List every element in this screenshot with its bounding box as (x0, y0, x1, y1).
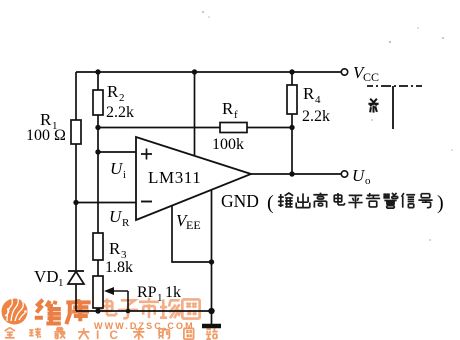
wire left vertical bottom (75, 284, 77, 311)
scan speckles (202, 11, 453, 241)
wire VCC top rail (76, 71, 341, 73)
wire divider vertical to R3 (97, 152, 99, 233)
resistor R4 (287, 85, 297, 114)
node junction rail-R4 (289, 69, 294, 74)
probe dashed line top right (367, 85, 422, 87)
node junction R4-Rf (289, 125, 294, 130)
node junction rail-R2 (95, 69, 100, 74)
watermark logo circle (2, 296, 28, 324)
wire output (251, 173, 341, 175)
wire Rf left (98, 127, 220, 129)
node junction RP bottom (95, 308, 100, 313)
svg-text:100k: 100k (212, 136, 244, 153)
probe vertical (392, 86, 394, 129)
watermark outline text 电子市场网 (102, 298, 200, 319)
pin minus sign (141, 201, 152, 203)
svg-text:I C: I C (96, 328, 118, 340)
svg-text:R: R (122, 217, 130, 229)
resistor R1 (71, 120, 81, 144)
wire RP to bottom (97, 308, 99, 311)
node junction Rf tap (95, 125, 100, 130)
terminal VCC (341, 69, 347, 75)
wire R4 bottom (291, 114, 293, 174)
wire minus input (76, 202, 136, 204)
svg-text:RP: RP (137, 284, 157, 301)
svg-text:U: U (109, 207, 123, 226)
svg-text:4: 4 (315, 94, 321, 106)
svg-text:R: R (109, 239, 121, 258)
svg-text:100 Ω: 100 Ω (26, 127, 66, 144)
wire R2 to node (97, 115, 99, 128)
resistor Rf (220, 123, 247, 133)
terminal Uo (341, 171, 347, 177)
svg-text:i: i (123, 169, 126, 181)
svg-text:R: R (303, 84, 315, 103)
wire bottom rail (76, 310, 212, 312)
diode VD1 (68, 271, 84, 284)
wire node to plus tap (97, 128, 99, 153)
wiper arrow RP1 (104, 287, 130, 313)
probe mark (368, 99, 378, 113)
svg-text:o: o (365, 175, 371, 187)
wire Rf right (247, 127, 292, 129)
svg-text:2.2k: 2.2k (106, 104, 134, 121)
pin plus sign (141, 149, 152, 160)
node junction left-minus (73, 200, 78, 205)
resistor R2 (93, 90, 103, 115)
watermark bottom line (5, 328, 90, 340)
svg-text:1: 1 (157, 292, 163, 304)
wire left vertical middle (75, 144, 77, 270)
svg-text:EE: EE (186, 218, 201, 232)
svg-text:(: ( (267, 192, 274, 214)
svg-text:U: U (110, 159, 124, 178)
resistor R3 (93, 233, 103, 260)
svg-text:1k: 1k (165, 284, 181, 301)
svg-text:1.8k: 1.8k (105, 259, 133, 276)
node junction rail-V+ (192, 69, 197, 74)
svg-text:2: 2 (119, 92, 125, 104)
wire R4 top stub (291, 72, 293, 85)
svg-text:R: R (107, 82, 119, 101)
node junction bottom-GND (208, 308, 214, 314)
ground (202, 324, 221, 329)
svg-text:LM311: LM311 (148, 168, 201, 187)
svg-text:VD: VD (34, 267, 59, 286)
svg-text:U: U (352, 166, 366, 185)
svg-text:R: R (222, 99, 234, 118)
wire left vertical upper (75, 72, 77, 120)
wire plus input (98, 151, 136, 153)
watermark big text 维库 (35, 299, 91, 325)
svg-text:f: f (234, 109, 238, 121)
svg-text:): ) (437, 192, 444, 214)
wire V+ pin (194, 72, 196, 155)
svg-text:CC: CC (363, 70, 379, 84)
node junction plus tap (95, 149, 100, 154)
node junction VEE-GND (209, 259, 214, 264)
wire R2 top stub (97, 72, 99, 90)
svg-text:2.2k: 2.2k (302, 108, 330, 125)
wire VEE pin (172, 206, 212, 262)
node junction output (289, 171, 294, 176)
op-amp U1 LM311 (136, 137, 251, 220)
svg-text:1: 1 (58, 277, 64, 289)
wire R3 to RP (97, 260, 99, 276)
potentiometer RP1 (93, 276, 103, 308)
svg-text:GND: GND (221, 191, 259, 211)
annotation output alarm note (267, 192, 444, 214)
wire GND pin (211, 190, 213, 325)
